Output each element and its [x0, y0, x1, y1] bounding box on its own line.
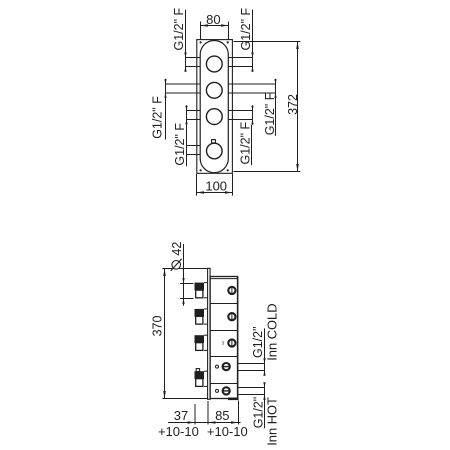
svg-text:42: 42: [170, 242, 184, 256]
svg-text:G1/2" F: G1/2" F: [172, 7, 186, 50]
svg-text:G1/2" F: G1/2" F: [150, 96, 164, 139]
svg-text:3: 3: [221, 340, 224, 346]
svg-text:G1/2" F: G1/2" F: [263, 92, 277, 135]
svg-text:G1/2" F: G1/2" F: [173, 123, 187, 166]
svg-text:G1/2" F: G1/2" F: [239, 7, 253, 50]
svg-text:37: 37: [174, 408, 188, 423]
svg-text:80: 80: [206, 12, 220, 27]
svg-text:370: 370: [150, 316, 164, 337]
svg-text:+10-10: +10-10: [207, 424, 248, 439]
svg-text:85: 85: [215, 408, 229, 423]
svg-text:+10-10: +10-10: [158, 424, 199, 439]
svg-text:100: 100: [205, 179, 227, 194]
svg-text:Inn COLD: Inn COLD: [265, 303, 280, 360]
svg-text:372: 372: [286, 94, 300, 115]
svg-text:G1/2" F: G1/2" F: [239, 121, 253, 164]
svg-text:G1/2": G1/2": [251, 326, 265, 358]
svg-text:Inn HOT: Inn HOT: [264, 397, 279, 446]
